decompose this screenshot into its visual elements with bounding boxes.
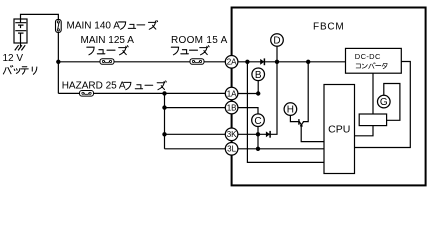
svg-text:G: G bbox=[380, 97, 388, 108]
svg-text:3L: 3L bbox=[227, 145, 236, 154]
svg-text:HAZARD 25 A: HAZARD 25 A bbox=[62, 81, 126, 92]
svg-text:1A: 1A bbox=[227, 89, 237, 98]
svg-text:ROOM 15 A: ROOM 15 A bbox=[171, 35, 228, 46]
wire feed to 3K bbox=[165, 133, 226, 135]
connector circle C bbox=[252, 114, 265, 127]
wire feed to 3L bbox=[165, 148, 226, 150]
battery 12V bbox=[14, 19, 27, 43]
wire 2A to DC-DC converter bbox=[239, 61, 346, 63]
wire 1A to B junction bbox=[238, 93, 258, 95]
fuse F3 ROOM 15A bbox=[190, 59, 204, 65]
svg-text:D: D bbox=[273, 36, 280, 47]
svg-text:DC-DC: DC-DC bbox=[355, 52, 381, 61]
svg-text:1B: 1B bbox=[227, 104, 237, 113]
wire hazard row to connector 1A bbox=[58, 92, 225, 94]
wire resistor box right to G staple bbox=[384, 84, 400, 121]
svg-text:H: H bbox=[287, 105, 294, 116]
wire C chain down bbox=[257, 127, 259, 149]
connector circle D bbox=[271, 34, 284, 62]
wire resistor box bottom to CPU bbox=[355, 126, 374, 136]
svg-text:FBCM: FBCM bbox=[313, 22, 345, 33]
junction dot hazard/1A bbox=[162, 91, 166, 95]
diode D1 on 2A wire bbox=[260, 58, 264, 65]
connector circle 2A bbox=[225, 56, 238, 69]
connector circle B bbox=[252, 68, 265, 94]
ground chassis hatch bbox=[15, 43, 25, 50]
svg-text:MAIN 140 A: MAIN 140 A bbox=[67, 20, 121, 31]
CPU box bbox=[324, 85, 355, 174]
svg-text:3K: 3K bbox=[227, 130, 237, 139]
junction dot below D bbox=[275, 60, 279, 64]
junction dot 2A chain bbox=[245, 60, 249, 64]
svg-text:MAIN 125 A: MAIN 125 A bbox=[81, 35, 135, 46]
connector circle G bbox=[378, 95, 391, 108]
fuse F2 MAIN 125A bbox=[100, 59, 114, 65]
svg-text:C: C bbox=[254, 116, 261, 127]
FBCM box bbox=[232, 8, 426, 186]
transistor Q1 bbox=[299, 119, 324, 142]
svg-text:B: B bbox=[255, 70, 262, 81]
wire 1B to C bbox=[238, 108, 258, 114]
connector circle H bbox=[284, 103, 299, 122]
connector circle 1B bbox=[225, 101, 238, 114]
junction dot B/1A bbox=[256, 91, 260, 95]
junction dot C/3L bbox=[256, 147, 260, 151]
connector circle 3L bbox=[225, 143, 238, 156]
wire DC-DC right to vertical bbox=[355, 62, 411, 148]
wire 3L to CPU bbox=[238, 148, 324, 150]
wire F1 bottom to node and down to hazard corner bbox=[57, 32, 59, 93]
wire DC-DC bottom to resistor box bbox=[372, 73, 374, 114]
wire left feed vertical bbox=[164, 93, 166, 148]
diode D2 on 3K wire bbox=[266, 131, 270, 138]
junction dot 3K feed bbox=[162, 132, 166, 136]
junction dot transistor feed bbox=[306, 60, 310, 64]
junction dot C/3K bbox=[256, 132, 260, 136]
junction dot 1B feed bbox=[162, 105, 166, 109]
connector circle 1A bbox=[225, 87, 238, 100]
svg-text:CPU: CPU bbox=[328, 124, 350, 136]
wire chain vertical to CPU bbox=[247, 62, 324, 163]
label converter katakana bbox=[356, 63, 387, 69]
wire 3K with diode bbox=[238, 62, 277, 135]
fuse F1 MAIN 140A vertical bbox=[56, 19, 62, 32]
svg-text:2A: 2A bbox=[227, 58, 237, 67]
resistor box R1 bbox=[359, 114, 386, 126]
wire collector feed bbox=[303, 62, 308, 122]
connector circle 3K bbox=[225, 128, 238, 141]
svg-text:12 V: 12 V bbox=[3, 53, 24, 64]
label battery katakana バッテリ bbox=[3, 65, 36, 74]
node A junction dot at fuse F1 bottom bbox=[56, 60, 60, 64]
DC-DC converter box U2 bbox=[346, 48, 402, 73]
fuse F4 HAZARD 25A bbox=[80, 91, 94, 97]
wire battery top to fuse F1 bbox=[21, 14, 59, 19]
wire fuse row to connector 2A bbox=[58, 61, 225, 63]
wire feed to 1B bbox=[165, 107, 226, 109]
